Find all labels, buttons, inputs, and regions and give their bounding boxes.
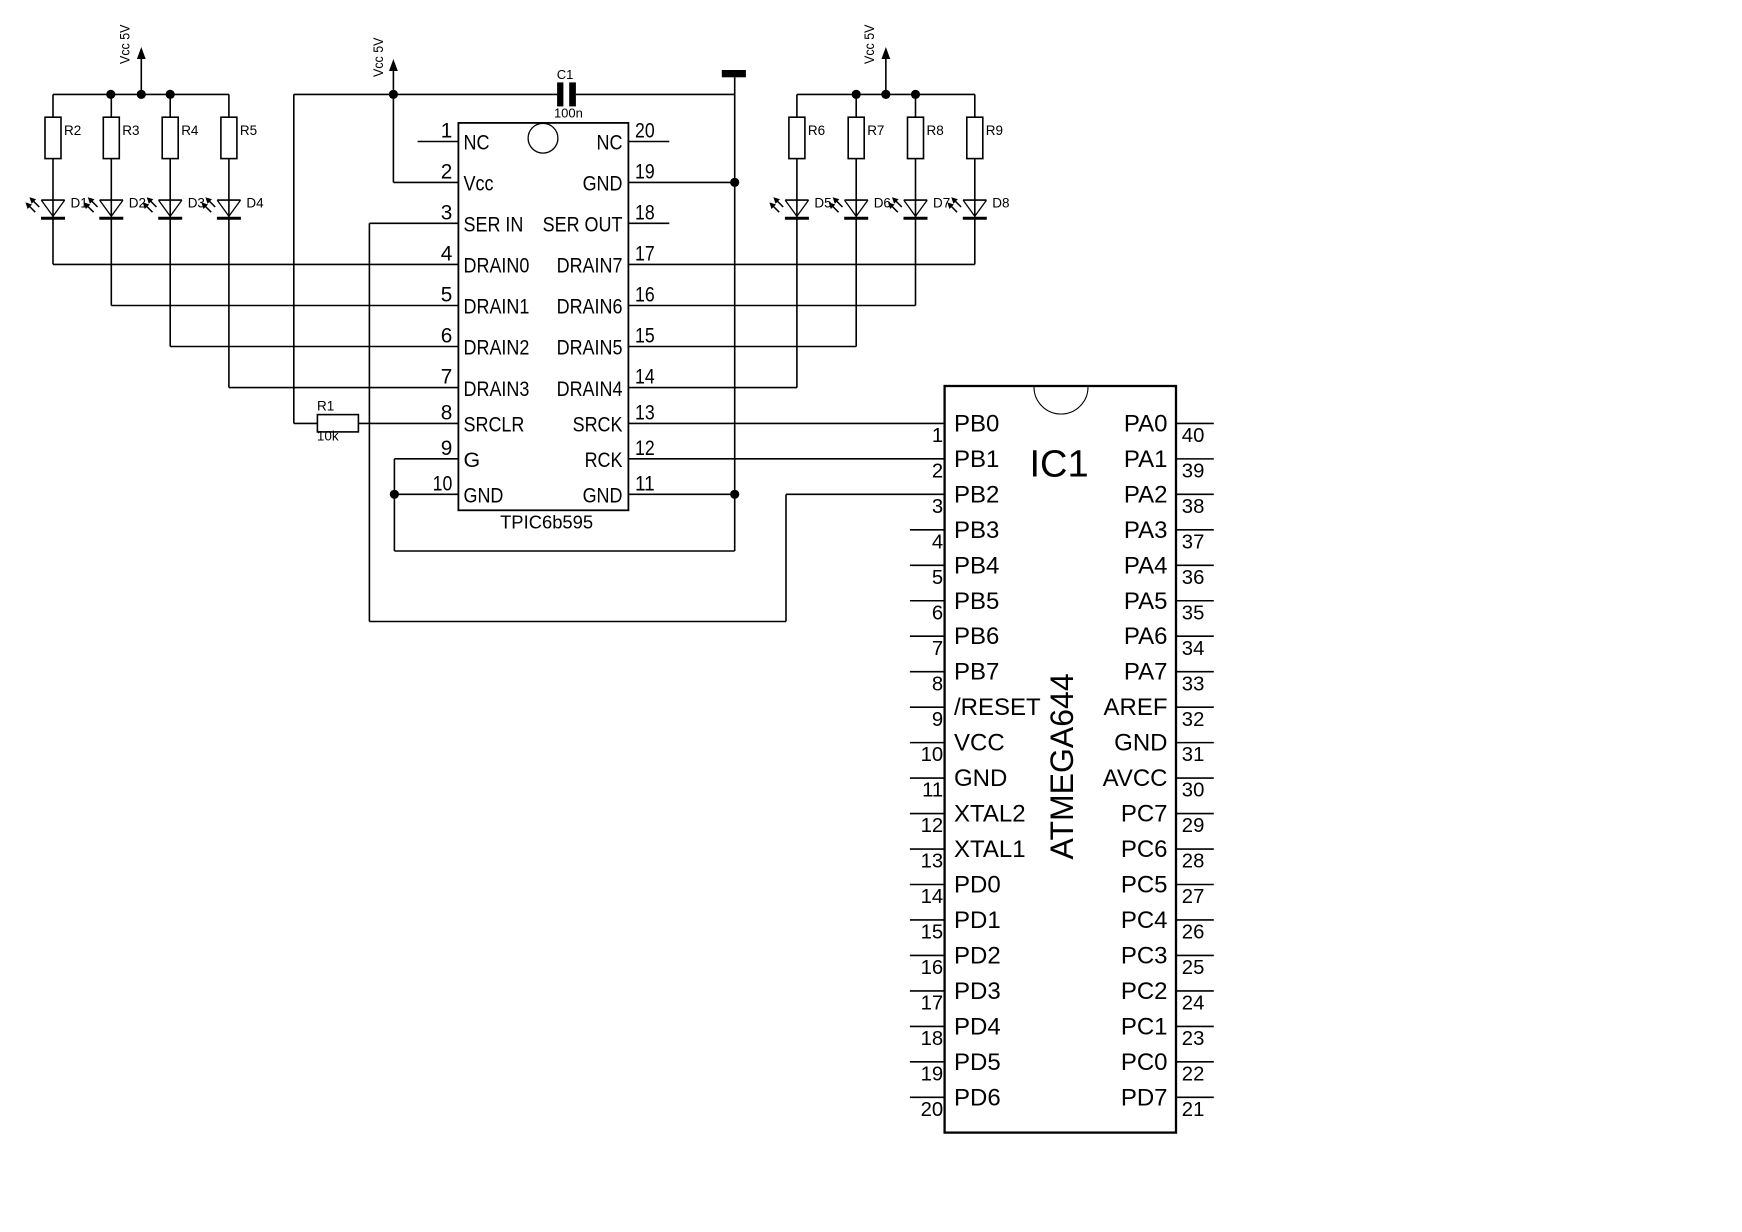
svg-text:6: 6 [932,602,943,624]
svg-text:18: 18 [921,1028,944,1050]
svg-text:R8: R8 [927,123,944,138]
svg-text:PC0: PC0 [1121,1049,1168,1076]
svg-text:7: 7 [932,638,943,660]
svg-text:SER IN: SER IN [464,213,524,237]
svg-text:21: 21 [1182,1099,1205,1121]
svg-text:PC5: PC5 [1121,872,1168,899]
svg-text:14: 14 [635,366,655,389]
svg-text:13: 13 [921,851,944,873]
svg-text:R3: R3 [122,123,139,138]
svg-text:NC: NC [597,131,623,155]
svg-text:VCC: VCC [954,730,1005,757]
svg-text:11: 11 [635,472,655,495]
svg-text:R7: R7 [867,123,884,138]
svg-text:GND: GND [954,765,1007,792]
svg-text:DRAIN2: DRAIN2 [464,336,530,360]
svg-text:D3: D3 [188,196,205,211]
svg-text:ATMEGA644: ATMEGA644 [1044,673,1080,859]
svg-text:Vcc: Vcc [464,172,494,196]
svg-text:XTAL2: XTAL2 [954,801,1026,828]
svg-text:10: 10 [433,472,453,495]
svg-text:40: 40 [1182,425,1205,447]
svg-text:G: G [464,448,481,472]
svg-text:D1: D1 [71,196,88,211]
svg-text:IC1: IC1 [1030,444,1089,486]
svg-text:D5: D5 [814,196,831,211]
svg-text:PB7: PB7 [954,659,999,686]
svg-text:18: 18 [635,201,655,224]
svg-text:4: 4 [932,531,943,553]
svg-text:15: 15 [921,922,944,944]
svg-text:PB3: PB3 [954,517,999,544]
svg-text:36: 36 [1182,567,1205,589]
svg-text:25: 25 [1182,957,1205,979]
svg-text:100n: 100n [554,106,583,121]
svg-text:PD1: PD1 [954,907,1001,934]
svg-text:GND: GND [583,172,623,196]
svg-text:Vcc 5V: Vcc 5V [862,25,877,65]
svg-text:5: 5 [441,284,453,307]
svg-text:9: 9 [932,709,943,731]
svg-text:23: 23 [1182,1028,1205,1050]
svg-text:PA2: PA2 [1124,481,1168,508]
svg-text:AREF: AREF [1103,694,1167,721]
svg-text:D8: D8 [992,196,1009,211]
svg-text:R4: R4 [181,123,199,138]
svg-text:R2: R2 [64,123,81,138]
svg-text:PA5: PA5 [1124,588,1168,615]
svg-text:31: 31 [1182,744,1205,766]
svg-text:TPIC6b595: TPIC6b595 [500,512,593,533]
svg-text:8: 8 [932,673,943,695]
svg-text:PD6: PD6 [954,1084,1001,1111]
svg-text:R6: R6 [808,123,825,138]
svg-text:DRAIN7: DRAIN7 [557,254,623,278]
svg-text:PC7: PC7 [1121,801,1168,828]
svg-text:26: 26 [1182,922,1205,944]
svg-text:24: 24 [1182,993,1205,1015]
svg-text:2: 2 [932,460,943,482]
svg-text:PB1: PB1 [954,446,999,473]
svg-text:35: 35 [1182,602,1205,624]
svg-text:DRAIN5: DRAIN5 [557,336,623,360]
svg-text:13: 13 [635,401,655,424]
svg-text:6: 6 [441,325,453,348]
svg-text:GND: GND [583,484,623,508]
svg-text:27: 27 [1182,886,1205,908]
svg-text:D6: D6 [874,196,891,211]
svg-text:GND: GND [1114,730,1167,757]
svg-text:SRCLR: SRCLR [464,413,525,437]
svg-text:34: 34 [1182,638,1205,660]
svg-text:/RESET: /RESET [954,694,1041,721]
svg-text:28: 28 [1182,851,1205,873]
svg-text:DRAIN0: DRAIN0 [464,254,530,278]
svg-text:3: 3 [932,496,943,518]
svg-text:22: 22 [1182,1063,1205,1085]
svg-text:PC4: PC4 [1121,907,1168,934]
svg-text:PA4: PA4 [1124,552,1168,579]
svg-text:20: 20 [921,1099,944,1121]
svg-text:PA0: PA0 [1124,410,1168,437]
svg-text:R9: R9 [986,123,1003,138]
svg-text:R1: R1 [317,398,334,413]
svg-text:PB6: PB6 [954,623,999,650]
svg-text:PC1: PC1 [1121,1013,1168,1040]
svg-text:16: 16 [921,957,944,979]
svg-text:PB2: PB2 [954,481,999,508]
svg-text:R5: R5 [240,123,257,138]
svg-text:Vcc 5V: Vcc 5V [371,38,386,78]
svg-text:PC3: PC3 [1121,942,1168,969]
svg-text:PC2: PC2 [1121,978,1168,1005]
svg-text:14: 14 [921,886,944,908]
svg-text:Vcc 5V: Vcc 5V [118,25,133,65]
svg-text:PD5: PD5 [954,1049,1001,1076]
svg-text:PD4: PD4 [954,1013,1001,1040]
svg-text:32: 32 [1182,709,1205,731]
svg-text:DRAIN6: DRAIN6 [557,295,623,319]
svg-text:7: 7 [441,366,453,389]
svg-text:SER OUT: SER OUT [543,213,623,237]
svg-text:2: 2 [441,160,453,183]
svg-text:SRCK: SRCK [573,413,624,437]
svg-text:5: 5 [932,567,943,589]
svg-text:8: 8 [441,401,453,424]
svg-text:C1: C1 [557,67,574,82]
svg-text:19: 19 [921,1063,944,1085]
svg-text:17: 17 [635,242,655,265]
svg-text:20: 20 [635,120,655,143]
svg-text:1: 1 [441,120,453,143]
svg-text:PB5: PB5 [954,588,999,615]
svg-text:PA7: PA7 [1124,659,1168,686]
svg-text:15: 15 [635,325,655,348]
svg-text:16: 16 [635,284,655,307]
svg-text:12: 12 [635,437,655,460]
svg-text:30: 30 [1182,780,1205,802]
svg-text:PB4: PB4 [954,552,999,579]
svg-text:19: 19 [635,160,655,183]
svg-text:33: 33 [1182,673,1205,695]
svg-text:XTAL1: XTAL1 [954,836,1026,863]
svg-text:10k: 10k [317,429,339,444]
svg-text:GND: GND [464,484,504,508]
svg-text:4: 4 [441,242,453,265]
svg-text:17: 17 [921,993,944,1015]
svg-text:D7: D7 [933,196,950,211]
svg-text:PA3: PA3 [1124,517,1168,544]
svg-text:DRAIN1: DRAIN1 [464,295,530,319]
svg-text:PD3: PD3 [954,978,1001,1005]
svg-text:DRAIN4: DRAIN4 [557,377,623,401]
svg-text:AVCC: AVCC [1103,765,1168,792]
svg-text:9: 9 [441,437,453,460]
svg-text:1: 1 [932,425,943,447]
svg-text:12: 12 [921,815,944,837]
svg-text:D4: D4 [246,196,264,211]
svg-text:10: 10 [921,744,944,766]
svg-text:PD2: PD2 [954,942,1001,969]
svg-text:PC6: PC6 [1121,836,1168,863]
svg-text:PB0: PB0 [954,410,999,437]
svg-text:11: 11 [922,780,943,802]
svg-text:PD7: PD7 [1121,1084,1168,1111]
svg-text:PA1: PA1 [1124,446,1168,473]
svg-text:PD0: PD0 [954,872,1001,899]
svg-text:NC: NC [464,131,490,155]
svg-text:3: 3 [441,201,453,224]
svg-text:37: 37 [1182,531,1205,553]
svg-text:RCK: RCK [585,448,624,472]
svg-text:D2: D2 [129,196,146,211]
svg-text:PA6: PA6 [1124,623,1168,650]
svg-text:39: 39 [1182,460,1205,482]
svg-text:29: 29 [1182,815,1205,837]
svg-text:DRAIN3: DRAIN3 [464,377,530,401]
svg-text:38: 38 [1182,496,1205,518]
